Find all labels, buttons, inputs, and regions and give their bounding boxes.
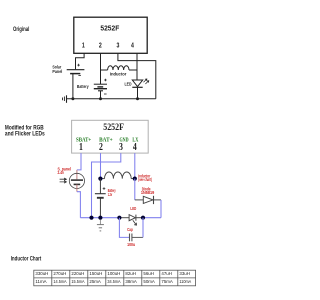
junction battery-rail [98,216,102,220]
wire pin4 LX column [136,53,138,80]
battery B2 top lead [99,179,101,194]
LED D3 emission arrow [133,220,137,225]
IC U2 box 5252F [72,120,149,153]
junction LED left [117,216,121,220]
inductor L2 right lead [131,178,135,180]
solar panel PV2 top lead [76,170,78,179]
ground rail circuit 2 left [80,217,119,219]
IC U1 box 5252F [74,17,147,53]
solar panel PV2 top plate [71,179,83,181]
wire node B to diode [134,179,136,200]
inductor L1 coil [108,66,129,70]
battery B1 plate 1 long [94,83,107,85]
svg-text:25mA: 25mA [89,279,101,284]
wire solar panel to ground rail [72,74,74,99]
light arrows [60,178,67,180]
svg-text:LED: LED [125,82,133,87]
wire pin2 to node A [100,153,102,179]
LED D1 cathode bar [132,86,142,88]
wire solar panel to rail [77,192,81,218]
solar panel PV1 bottom plate [70,73,80,75]
table row 2 values [35,279,191,284]
capacitor C1 right lead [132,236,143,238]
battery B1 plate 3 long [94,88,107,90]
solar panel PV1 minus sign [78,75,81,77]
solar panel PV2 bottom lead [76,184,78,191]
svg-text:270uH: 270uH [53,271,66,276]
wire pin1 to solar panel [76,53,85,69]
svg-text:Original: Original [13,26,29,33]
wire pin3 GND net [92,153,121,218]
inductor L2 coil [105,172,132,179]
capacitor C1 right wire up [142,218,144,238]
junction LED-rail [136,97,139,100]
svg-text:(see chart): (see chart) [138,177,152,182]
battery B1 plate 2 short [97,86,103,88]
junction battery-rail [99,97,102,100]
svg-text:Inductor: Inductor [110,72,127,77]
LED D3 cathode bar [135,215,137,221]
svg-text:110mA: 110mA [179,279,191,284]
LED D1 emission arrows [144,79,147,82]
inductor chart table grid [34,270,196,286]
battery B2 bottom lead [99,198,101,218]
svg-text:100uH: 100uH [107,271,120,276]
svg-text:Cap: Cap [127,227,133,232]
svg-text:220uH: 220uH [71,271,84,276]
inductor L1 left lead [101,69,108,71]
wire diode to rail right end [160,200,162,218]
LED D3 left lead [119,217,129,219]
solar panel PV1 top plate [67,69,85,71]
solar panel PV1 plus sign [77,64,80,67]
wire pin3 GND to right rail [118,53,156,99]
node B junction [133,177,137,181]
ground rail circuit 1 [67,98,156,100]
capacitor C1 right plate [131,234,133,242]
wire battery to ground rail [100,91,102,99]
svg-text:2: 2 [99,41,102,50]
capacitor C1 left wire [119,218,129,238]
junction LED right [141,216,145,220]
svg-text:33uH: 33uH [179,271,190,276]
svg-text:3: 3 [119,142,123,153]
svg-text:38mA: 38mA [125,279,137,284]
inductor L2 left lead [100,178,104,180]
ground symbol GND1 [66,95,68,103]
battery B2 bottom plate [97,197,104,199]
junction solar-rail [71,97,74,100]
svg-text:2: 2 [99,142,103,153]
rail right segment [143,217,161,219]
svg-text:15.5mA: 15.5mA [71,279,84,284]
svg-text:2.4v: 2.4v [58,170,65,175]
junction GND-rail [89,216,93,220]
battery B1 plus sign [104,79,107,82]
diode D2 cathode bar [153,196,155,204]
diode D2 right lead [154,199,162,201]
svg-text:14.5mA: 14.5mA [53,279,66,284]
svg-text:1N5819: 1N5819 [141,190,155,195]
battery B1 plate 4 short [98,90,103,92]
battery B2 plus sign [103,187,106,190]
LED D3 triangle [129,215,135,221]
svg-text:Battery: Battery [77,84,89,89]
svg-text:1: 1 [82,41,85,50]
battery B2 top plate [95,193,106,195]
wire pin4 to node B [134,153,136,179]
diode D2 triangle [143,196,153,203]
svg-text:50mA: 50mA [143,279,155,284]
ground symbol GND2 [99,220,101,225]
diode D2 left lead [135,199,144,201]
svg-text:4: 4 [133,142,137,153]
svg-text:47uH: 47uH [161,271,172,276]
svg-text:150uH: 150uH [89,271,102,276]
LED D1 triangle [132,80,142,87]
svg-text:1: 1 [79,142,83,153]
solar panel PV2 bottom plate [74,183,81,185]
wire pin1 to solar panel [77,153,81,170]
svg-text:11mA: 11mA [35,279,46,284]
svg-text:34.5mA: 34.5mA [107,279,120,284]
svg-text:75mA: 75mA [161,279,173,284]
svg-text:5252F: 5252F [100,25,120,32]
LED D3 right lead [136,217,143,219]
wire pin2 to battery [100,53,102,84]
svg-text:and Flicker LEDs: and Flicker LEDs [5,130,45,137]
wire LED cathode to ground rail [137,87,139,99]
inductor L1 right lead [129,69,137,71]
svg-text:LED: LED [130,206,136,211]
battery B1 minus sign [104,93,107,95]
table row 1 values [35,271,190,276]
svg-text:100u: 100u [127,242,136,247]
svg-text:3: 3 [116,41,119,50]
svg-text:5252F: 5252F [103,123,124,133]
node A junction [98,177,102,181]
svg-text:1.2v: 1.2v [108,192,113,197]
svg-text:4: 4 [131,41,134,50]
svg-text:56uH: 56uH [143,271,154,276]
svg-text:Inductor Chart: Inductor Chart [11,255,42,262]
solar panel PV2 circle [69,173,84,188]
svg-text:330uH: 330uH [35,271,48,276]
svg-text:Panel: Panel [52,69,62,74]
svg-text:82uH: 82uH [125,271,135,276]
capacitor C1 left plate [129,234,131,242]
